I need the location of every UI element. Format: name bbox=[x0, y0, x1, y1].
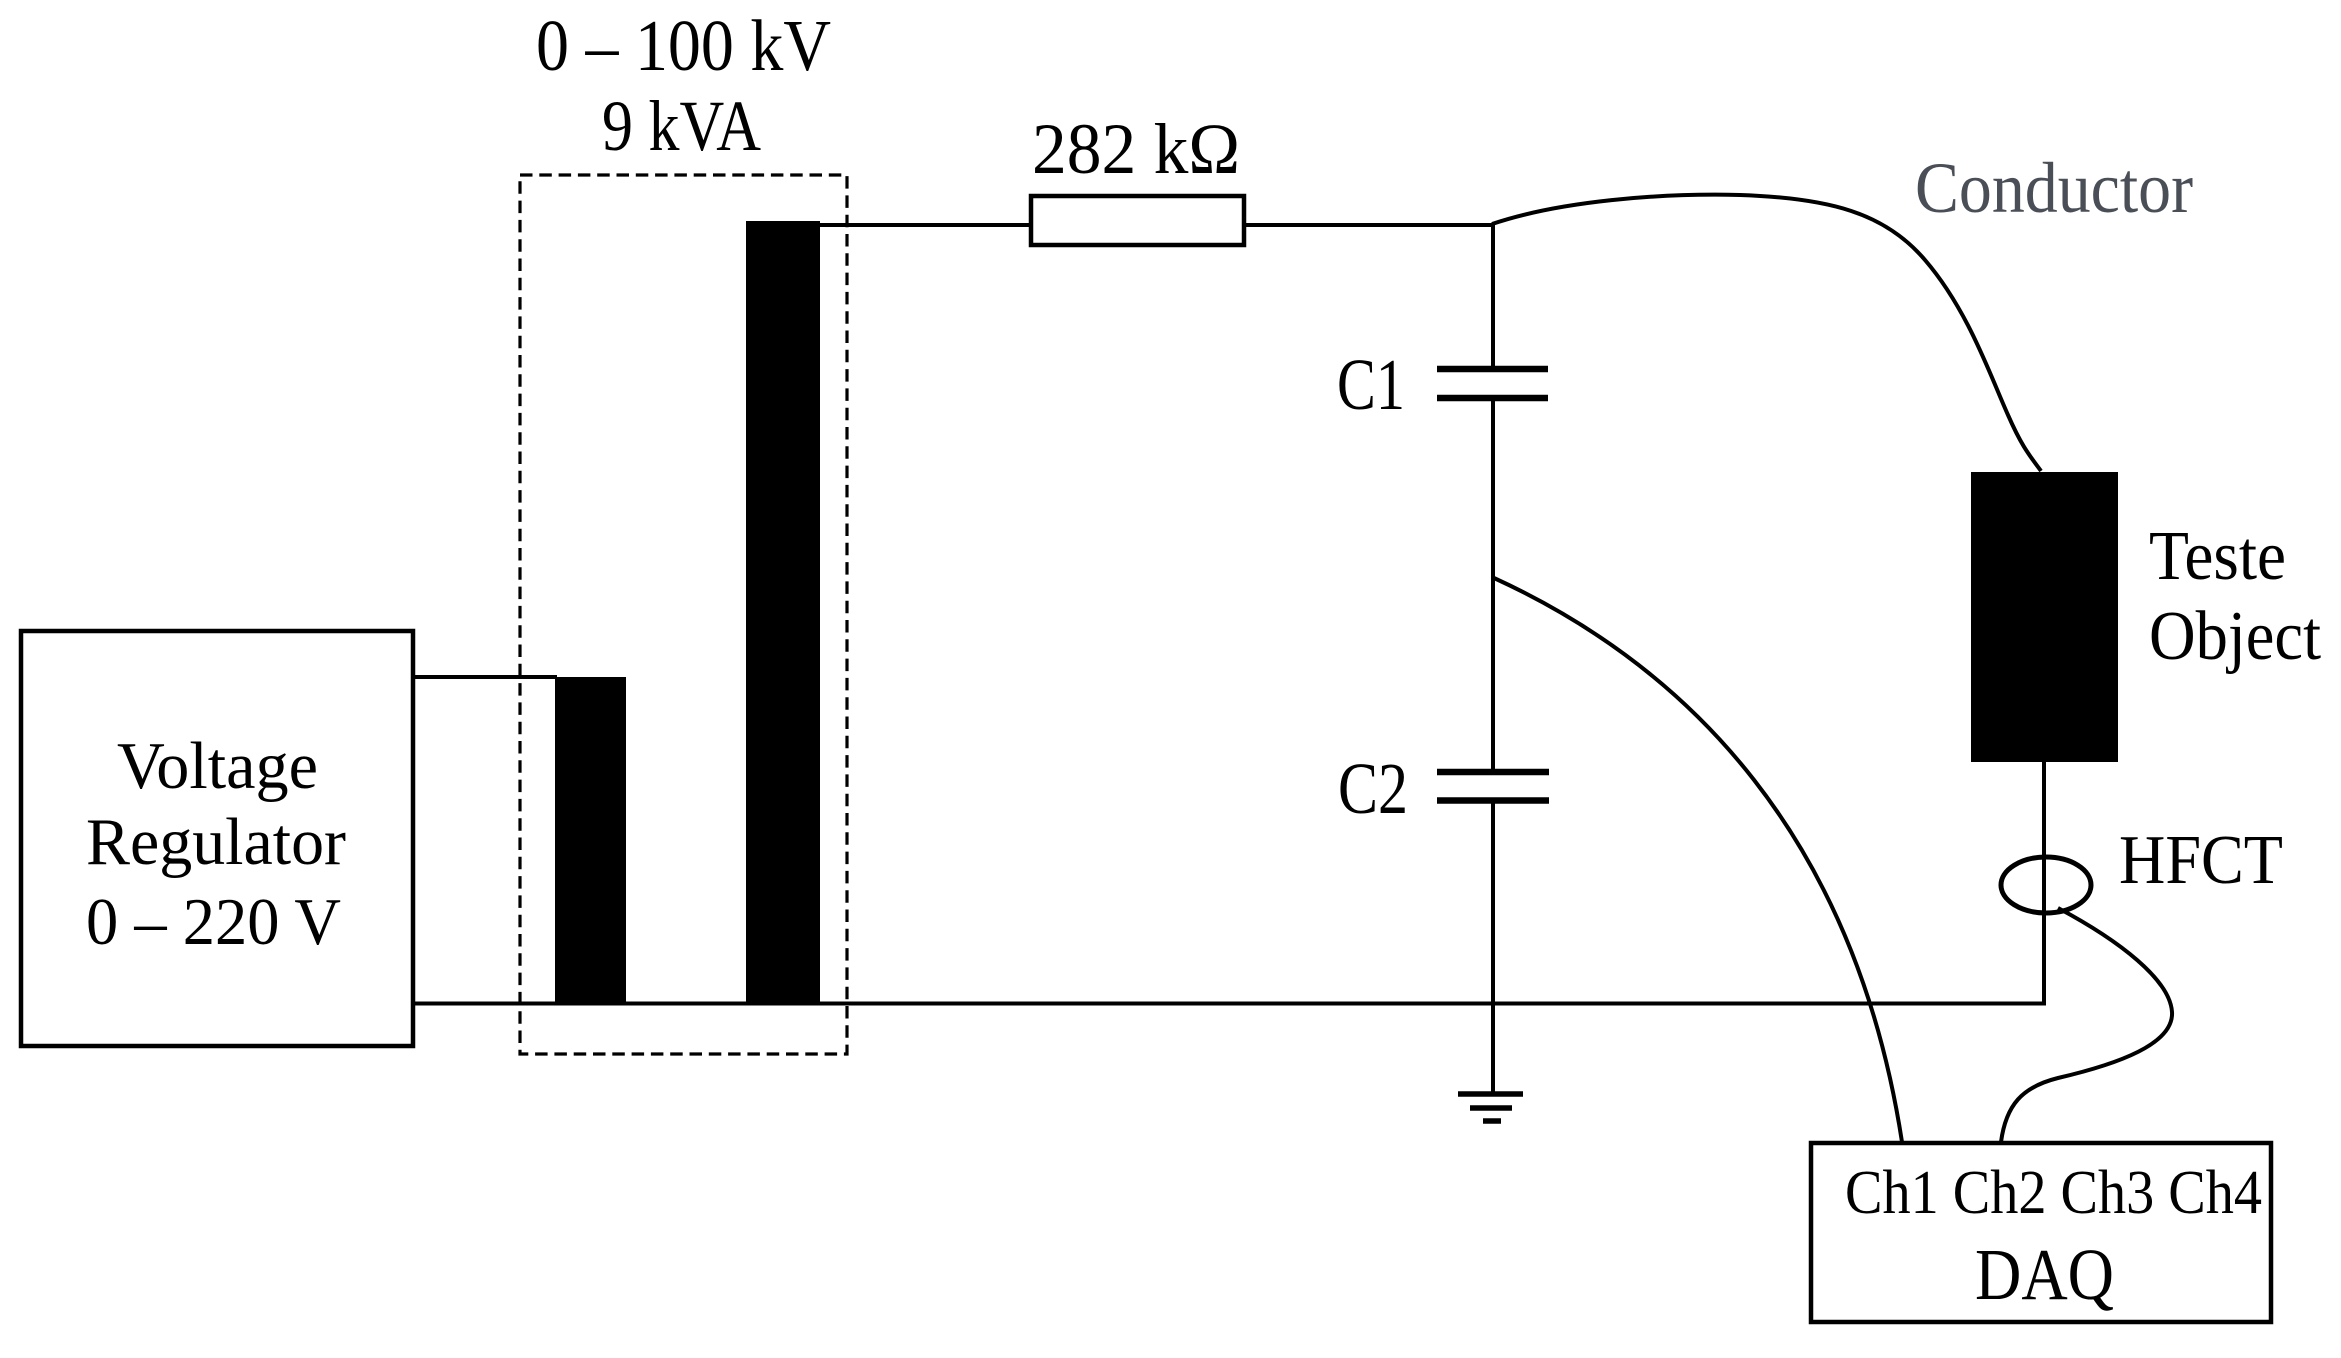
svg-text:HFCT: HFCT bbox=[2119, 822, 2283, 899]
svg-text:C1: C1 bbox=[1337, 344, 1405, 425]
cable HFCT to DAQ Ch2 bbox=[2001, 908, 2172, 1142]
resistor 282 kOhm body bbox=[1031, 196, 1244, 245]
svg-text:Voltage: Voltage bbox=[117, 729, 318, 803]
svg-text:Teste: Teste bbox=[2149, 518, 2286, 595]
wire bottom return bbox=[413, 1002, 2046, 1006]
test object body bbox=[1971, 472, 2118, 762]
wire resistor to node A bbox=[1244, 223, 1495, 227]
transformer T1 dashed enclosure bbox=[520, 175, 847, 1054]
wire C1 to C2 bbox=[1491, 398, 1495, 772]
svg-text:Object: Object bbox=[2149, 598, 2322, 675]
capacitor C2 plates bbox=[1437, 769, 1549, 776]
transformer T1 primary winding bar bbox=[555, 677, 626, 1003]
conductor wire node A to test object bbox=[1492, 195, 2041, 471]
svg-text:DAQ: DAQ bbox=[1975, 1234, 2114, 1315]
svg-text:Conductor: Conductor bbox=[1915, 148, 2193, 228]
wire test object to bottom return bbox=[2042, 762, 2046, 1004]
DAQ box bbox=[1811, 1143, 2271, 1322]
capacitor C1 plates bbox=[1437, 366, 1548, 373]
svg-text:C2: C2 bbox=[1338, 748, 1408, 829]
wire regulator to primary (top) bbox=[413, 675, 557, 679]
svg-text:282 kΩ: 282 kΩ bbox=[1032, 109, 1240, 189]
wire C2 to ground bbox=[1491, 800, 1495, 1092]
svg-text:0 – 220 V: 0 – 220 V bbox=[86, 885, 341, 959]
node A vertical wire to C1 bbox=[1491, 223, 1495, 369]
HFCT sensor ellipse bbox=[2001, 857, 2091, 913]
svg-text:Regulator: Regulator bbox=[86, 805, 346, 879]
svg-text:9 kVA: 9 kVA bbox=[602, 86, 761, 166]
transformer T1 secondary winding bar bbox=[746, 221, 820, 1003]
ground bbox=[1458, 1091, 1523, 1097]
cable divider tap to DAQ Ch1 bbox=[1494, 578, 1902, 1142]
svg-text:0 – 100 kV: 0 – 100 kV bbox=[536, 5, 831, 86]
voltage regulator box bbox=[21, 631, 413, 1046]
wire secondary to resistor bbox=[820, 223, 1031, 227]
svg-text:Ch1 Ch2 Ch3 Ch4: Ch1 Ch2 Ch3 Ch4 bbox=[1845, 1159, 2262, 1227]
